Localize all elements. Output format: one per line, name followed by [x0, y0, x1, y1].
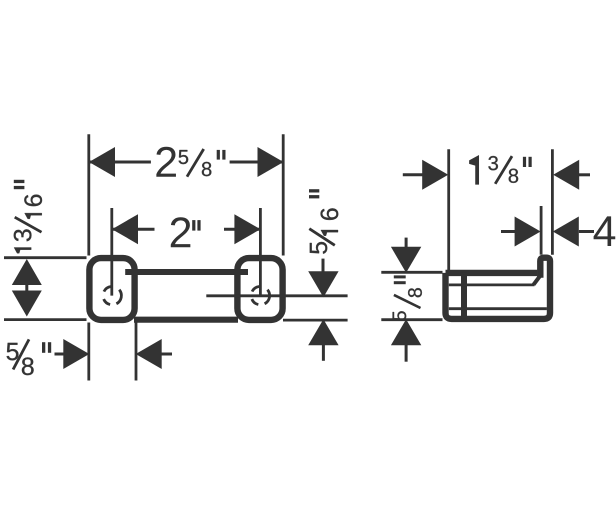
side view: main body outline	[446, 258, 551, 319]
shaft lip dim left	[501, 230, 515, 233]
extension line: hook bottom to the right	[283, 319, 348, 322]
arrow lip dim pointing right	[515, 217, 541, 247]
arrow 2 left	[112, 214, 138, 244]
arrow 5/8 side up	[391, 319, 421, 345]
shaft 5/8 side below	[405, 345, 408, 362]
front view: bar top edge	[125, 269, 248, 275]
side view: inner top line	[449, 283, 535, 286]
extension line: left hook center vertical	[110, 208, 113, 296]
extension line: hook top horizontal to left edge	[4, 256, 87, 259]
side view: top edge	[446, 270, 538, 276]
front view: left screw symbol	[104, 286, 122, 304]
leader line: screw center level	[206, 294, 347, 297]
extension line: outer-right vertical	[282, 134, 285, 255]
extension line: side view left vertical	[447, 149, 450, 270]
extension line: below left hook left edge	[87, 323, 90, 381]
label 2 inch	[171, 217, 201, 247]
label 5/8 inch bottom left	[7, 339, 52, 375]
text mask for 2in	[155, 211, 225, 251]
arrow 2 5/8 left	[89, 147, 115, 177]
arrow 5/8 left pointing right	[63, 339, 89, 369]
label 5/16 inch rotated	[309, 189, 338, 254]
front view: bar bottom edge	[134, 317, 238, 323]
arrow 5/16 down	[308, 271, 338, 297]
label 5/8 inch rotated side view	[393, 275, 422, 320]
arrow 5/16 up	[308, 319, 338, 345]
shaft 5/8 right	[162, 353, 173, 356]
shaft 1 3/8 left	[403, 173, 423, 176]
extension line: side view right vertical	[551, 149, 554, 255]
label 4 cut off at edge	[594, 216, 616, 246]
dimension 2 5/8 line	[89, 161, 284, 164]
arrow 13/16 down	[12, 291, 42, 317]
shaft 5/16 above	[322, 259, 325, 272]
text mask for 2 5/8	[151, 139, 230, 185]
side view: inner bottom line	[449, 307, 547, 310]
shaft 5/8 side above	[405, 238, 408, 248]
arrow 5/8 side down	[391, 247, 421, 273]
front view: right hook outline	[237, 258, 282, 320]
shaft between 13/16 arrows	[25, 284, 28, 292]
extension line: hook bottom horizontal to left edge	[4, 318, 87, 321]
arrow 1 3/8 right pointing left	[553, 160, 579, 190]
arrow 2 right	[234, 214, 260, 244]
shaft 5/8 left	[55, 353, 65, 356]
arrow lip dim pointing left	[553, 217, 579, 247]
extension line: right hook center vertical	[259, 208, 262, 296]
extension line: outer-left vertical	[87, 134, 90, 255]
shaft 1 3/8 right	[579, 173, 590, 176]
label 1 3/8 inch	[469, 155, 532, 185]
extension line: below left hook right edge	[135, 323, 138, 381]
arrow 13/16 up	[12, 259, 42, 285]
front view: left hook outline	[89, 258, 134, 320]
shaft lip dim right	[579, 230, 594, 233]
extension line: side view top horizontal	[381, 271, 442, 274]
shaft 5/16 below	[322, 345, 325, 361]
label 2 5/8 inch	[156, 147, 225, 177]
arrow 2 5/8 right	[258, 147, 284, 177]
dimension 2 line	[112, 228, 260, 231]
label 13/16 inch rotated	[14, 180, 42, 253]
extension line: lip left vertical	[540, 206, 543, 255]
side view: wall plate line	[461, 273, 467, 319]
arrow 5/8 right pointing left	[136, 339, 162, 369]
arrow 1 3/8 left pointing right	[422, 160, 448, 190]
side view: chamfer	[534, 275, 541, 284]
front view: right screw symbol	[252, 286, 270, 304]
extension line: side view bottom horizontal	[381, 318, 442, 321]
